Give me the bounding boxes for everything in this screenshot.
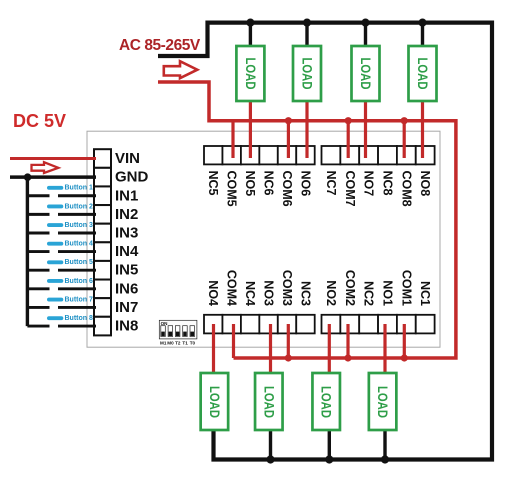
wire button B7 to terminal IN7 — [58, 306, 96, 309]
junction dot red top bus at COM8 — [401, 117, 408, 124]
svg-text:AC 85-265V: AC 85-265V — [119, 37, 201, 54]
svg-text:NO1: NO1 — [380, 280, 394, 306]
button B6 actuator cap — [47, 279, 63, 283]
label M1 M0 T2 T1 T0 — [160, 341, 196, 346]
svg-text:LOAD: LOAD — [243, 58, 258, 90]
load L5 (top) — [236, 46, 264, 101]
svg-text:NC7: NC7 — [324, 171, 338, 196]
wire button B6 to terminal IN6 — [58, 287, 96, 290]
wire black top bus to LOAD L5 — [249, 23, 252, 49]
svg-text:Button 5: Button 5 — [65, 259, 93, 266]
wire ground bus to button B6 — [27, 287, 49, 290]
button B2 actuator cap — [47, 204, 63, 208]
wire black LOAD L3 to black bottom bus — [269, 429, 272, 460]
svg-text:COM2: COM2 — [343, 270, 357, 306]
svg-text:LOAD: LOAD — [358, 58, 373, 90]
svg-text:IN1: IN1 — [115, 187, 138, 204]
wire red top bus to terminal COM8 — [403, 121, 406, 158]
svg-text:IN2: IN2 — [115, 206, 138, 223]
svg-text:NO3: NO3 — [262, 280, 276, 306]
arrow AC input direction — [164, 61, 198, 78]
svg-text:LOAD: LOAD — [207, 386, 222, 418]
wire ground bus to button B8 — [27, 325, 49, 328]
svg-text:COM5: COM5 — [225, 171, 239, 207]
svg-text:NC6: NC6 — [262, 171, 276, 196]
svg-text:LOAD: LOAD — [319, 386, 334, 418]
button B1 actuator cap — [47, 186, 63, 190]
load L2 (bottom) — [312, 373, 340, 430]
wire red terminal NO4 to LOAD L4 — [212, 324, 215, 375]
wire red terminal NO3 to LOAD L3 — [269, 324, 272, 375]
junction dot black bottom bus at L2 — [325, 455, 333, 463]
wire ground bus to button B7 — [27, 306, 49, 309]
wire red terminal COM2 to red bottom bus — [346, 324, 349, 358]
button B8 actuator cap — [47, 316, 63, 320]
terminal block left (control header VIN GND IN1-IN8) — [94, 149, 111, 335]
svg-text:COM7: COM7 — [343, 171, 357, 207]
svg-text:COM8: COM8 — [399, 171, 413, 207]
wire DC ground to GND (black) — [10, 175, 96, 178]
svg-text:Button 1: Button 1 — [65, 185, 93, 192]
wire black LOAD L1 to black bottom bus — [383, 429, 386, 460]
svg-text:T0: T0 — [190, 341, 196, 346]
wire ground bus to button B4 — [27, 250, 49, 253]
wire red terminal NO1 to LOAD L1 — [383, 324, 386, 375]
wire DC 5V supply to VIN (red) — [10, 157, 96, 160]
wire AC neutral loop (black): top bus, right side, bottom bus — [158, 23, 492, 460]
svg-text:IN3: IN3 — [115, 224, 138, 241]
wire button B1 to terminal IN1 — [58, 194, 96, 197]
svg-text:COM6: COM6 — [280, 171, 294, 207]
svg-text:IN5: IN5 — [115, 262, 138, 279]
svg-text:NC8: NC8 — [380, 171, 394, 196]
wire button B8 to terminal IN8 — [58, 325, 96, 328]
svg-text:NO6: NO6 — [298, 171, 312, 197]
wire black top bus to LOAD L6 — [305, 23, 308, 49]
junction dot black top bus at L5 — [246, 19, 254, 27]
junction dot black bottom bus at L1 — [381, 455, 389, 463]
terminal block bottom (relays 1-4) — [204, 315, 435, 334]
junction dot black top bus at L6 — [303, 19, 311, 27]
svg-text:VIN: VIN — [115, 150, 140, 167]
wire red LOAD L5 to terminal NO5 — [249, 100, 252, 159]
wire black LOAD L2 to black bottom bus — [328, 429, 331, 460]
wire button B5 to terminal IN5 — [58, 269, 96, 272]
button B4 actuator cap — [47, 242, 63, 246]
junction dot red bottom bus at COM2 — [344, 354, 351, 361]
button B5 actuator cap — [47, 260, 63, 264]
load L6 (top) — [293, 46, 321, 101]
wire red terminal COM4 to red bottom bus — [232, 324, 235, 358]
svg-text:NC4: NC4 — [243, 281, 257, 306]
relay module board outline — [87, 131, 440, 347]
terminal block top (relays 5-8) — [204, 146, 435, 164]
wire AC live loop (red): top bus, right side, bottom bus — [158, 82, 456, 358]
svg-text:LOAD: LOAD — [415, 58, 430, 90]
junction dot on GND wire — [24, 173, 32, 181]
svg-text:Button 6: Button 6 — [65, 278, 93, 285]
wire red terminal NO2 to LOAD L2 — [328, 324, 331, 375]
arrow DC input direction — [32, 162, 59, 173]
svg-text:IN6: IN6 — [115, 280, 138, 297]
wire red terminal COM1 to red bottom bus — [403, 324, 406, 358]
junction dot black bottom bus at L3 — [266, 455, 274, 463]
svg-text:NO2: NO2 — [324, 280, 338, 306]
wire black top bus to LOAD L8 — [421, 23, 424, 49]
svg-text:Button 7: Button 7 — [65, 296, 93, 303]
wire red top bus to terminal COM5 — [231, 121, 234, 158]
svg-text:IN4: IN4 — [115, 243, 139, 260]
svg-text:NO7: NO7 — [362, 171, 376, 197]
svg-text:NC2: NC2 — [362, 281, 376, 306]
wire ground bus to button B3 — [27, 232, 49, 235]
svg-text:ON: ON — [161, 321, 169, 326]
wire ground bus to button B5 — [27, 269, 49, 272]
svg-text:Button 4: Button 4 — [65, 241, 93, 248]
svg-text:IN8: IN8 — [115, 318, 138, 335]
wire red top bus to terminal COM6 — [287, 121, 290, 158]
svg-text:GND: GND — [115, 169, 149, 186]
svg-text:NO8: NO8 — [418, 171, 432, 197]
svg-text:M0: M0 — [167, 341, 174, 346]
svg-text:Button 2: Button 2 — [65, 203, 93, 210]
svg-text:Button 3: Button 3 — [65, 222, 93, 229]
wire red LOAD L7 to terminal NO7 — [364, 100, 367, 159]
wire button B2 to terminal IN2 — [58, 213, 96, 216]
wire red terminal COM3 to red bottom bus — [287, 324, 290, 358]
wire ground bus to button B2 — [27, 213, 49, 216]
svg-text:COM4: COM4 — [225, 270, 239, 306]
svg-text:COM1: COM1 — [399, 270, 413, 306]
wire red top bus to terminal COM7 — [347, 121, 350, 158]
junction dot red bottom bus at COM3 — [285, 354, 292, 361]
svg-text:NO4: NO4 — [206, 280, 220, 306]
button B3 actuator cap — [47, 223, 63, 227]
button B7 actuator cap — [47, 298, 63, 302]
junction dot black top bus at L8 — [418, 19, 426, 27]
svg-text:T1: T1 — [182, 341, 188, 346]
svg-text:LOAD: LOAD — [375, 386, 390, 418]
svg-text:LOAD: LOAD — [261, 386, 276, 418]
wire button B3 to terminal IN3 — [58, 232, 96, 235]
svg-text:IN7: IN7 — [115, 299, 138, 316]
DIP switch block (mode select) — [159, 320, 197, 339]
junction dot red bottom bus at COM1 — [401, 354, 408, 361]
junction dot black top bus at L7 — [361, 19, 369, 27]
junction dot red top bus at COM6 — [285, 117, 292, 124]
wire black top bus to LOAD L7 — [364, 23, 367, 49]
wire red LOAD L6 to terminal NO6 — [305, 100, 308, 159]
junction dot red top bus at COM7 — [345, 117, 352, 124]
svg-text:DC 5V: DC 5V — [13, 111, 66, 131]
wire button B4 to terminal IN4 — [58, 250, 96, 253]
svg-text:NC1: NC1 — [418, 281, 432, 306]
wire ground bus to button B1 — [27, 194, 49, 197]
svg-text:M1: M1 — [160, 341, 167, 346]
load L3 (bottom) — [255, 373, 282, 430]
wire red LOAD L8 to terminal NO8 — [421, 100, 424, 159]
svg-text:Button 8: Button 8 — [65, 315, 93, 322]
load L7 (top) — [352, 46, 380, 101]
svg-text:NC3: NC3 — [298, 281, 312, 306]
svg-text:COM3: COM3 — [280, 270, 294, 306]
svg-text:T2: T2 — [175, 341, 181, 346]
svg-text:NC5: NC5 — [206, 171, 220, 196]
wire ground bus vertical (black) — [26, 177, 29, 326]
svg-text:NO5: NO5 — [243, 171, 257, 197]
load L8 (top) — [409, 46, 437, 101]
load L1 (bottom) — [369, 373, 397, 430]
svg-text:LOAD: LOAD — [300, 58, 315, 90]
load L4 (bottom) — [201, 373, 229, 430]
